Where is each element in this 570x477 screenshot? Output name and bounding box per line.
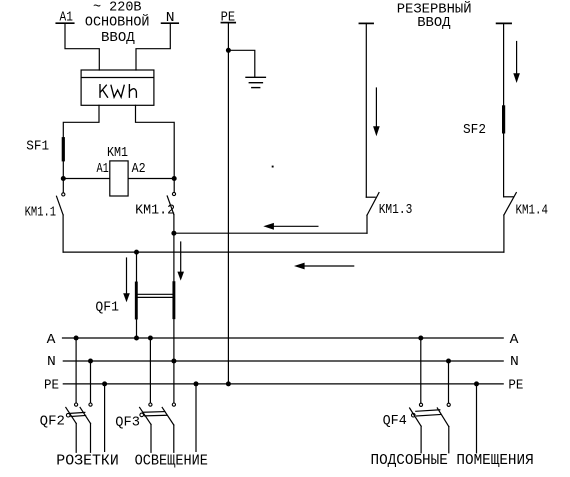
wire reserve left vertical xyxy=(365,23,367,197)
bus PE horizontal xyxy=(63,383,503,385)
breaker QF4 right pole circle xyxy=(447,403,450,406)
contact KM1.4 blade xyxy=(504,193,516,215)
breaker QF3 xyxy=(115,403,175,452)
node bus N dot QF2 xyxy=(88,359,93,364)
breaker QF4 right blade xyxy=(437,408,449,427)
wire QF1 right leg lower to bus N and QF3 xyxy=(173,318,175,403)
wire KM1.3 down xyxy=(366,215,368,233)
svg-text:KM1.1: KM1.1 xyxy=(25,205,57,221)
node bus N dot QF4 xyxy=(446,359,451,364)
wire QF2 left leg xyxy=(75,423,77,452)
breaker QF3 right pole circle xyxy=(172,403,175,406)
breaker QF4 left pole circle xyxy=(419,403,422,406)
wire QF3 right leg xyxy=(173,425,175,452)
breaker QF4 left blade xyxy=(410,408,422,426)
svg-text:A2: A2 xyxy=(132,161,146,177)
svg-text:A1: A1 xyxy=(97,161,109,177)
node bus A dot QF3 xyxy=(148,336,153,341)
svg-text:ПОДСОБНЫЕ ПОМЕЩЕНИЯ: ПОДСОБНЫЕ ПОМЕЩЕНИЯ xyxy=(371,452,534,469)
contact KM1.1 blade xyxy=(57,196,64,215)
breaker QF1 crossbar 2 xyxy=(138,296,173,298)
breaker QF4 linkage bar 2 xyxy=(417,415,441,417)
svg-text:ОСНОВНОЙ: ОСНОВНОЙ xyxy=(85,14,150,31)
wire QF1 right leg upper xyxy=(173,233,175,283)
wire QF3 left leg xyxy=(150,424,152,452)
svg-text:N: N xyxy=(510,354,519,370)
contact KM1.1 open circle xyxy=(62,193,65,196)
node bus PE dot main xyxy=(226,381,231,386)
wire kWh right output to node J2 xyxy=(136,105,175,178)
svg-text:ВВОД: ВВОД xyxy=(417,15,451,31)
wire QF2 right leg xyxy=(90,423,92,452)
breaker QF2 linkage bar 1 xyxy=(70,412,85,413)
wire node J1 to coil KM1 xyxy=(63,178,110,180)
breaker SF1 (thick bar) xyxy=(62,139,65,160)
breaker QF2 left pole circle xyxy=(75,403,78,406)
breaker QF1 left bar xyxy=(135,283,138,318)
svg-text:QF4: QF4 xyxy=(383,413,407,429)
meter kWh divider line xyxy=(81,77,154,79)
breaker QF4 handle circle xyxy=(412,413,416,417)
node bus A dot QF2 xyxy=(74,336,79,341)
contact KM1.2 open circle xyxy=(172,192,175,195)
breaker QF1 right bar xyxy=(172,283,175,318)
coil KM1 (contactor coil rectangle) xyxy=(110,161,128,196)
wire PE drop group1 xyxy=(104,384,106,452)
svg-text:QF3: QF3 xyxy=(115,414,140,430)
contact KM1.2 blade xyxy=(167,196,174,215)
svg-text:A: A xyxy=(47,332,56,348)
ground (earth symbol) xyxy=(246,77,265,87)
terminal tick N xyxy=(162,22,179,24)
wire SF1 to node J1 xyxy=(62,160,64,179)
terminal tick reserve left xyxy=(359,22,373,24)
contact KM1.3 blade xyxy=(367,193,379,216)
svg-text:A: A xyxy=(510,332,519,348)
contact KM1.4 fixed tick xyxy=(504,196,513,198)
svg-text:KM1.4: KM1.4 xyxy=(516,202,549,218)
wire reserve right to SF2 xyxy=(503,23,505,107)
svg-text:~ 220В: ~ 220В xyxy=(93,0,142,16)
wire coil KM1 to node J2 xyxy=(128,178,174,180)
arrow down on reserve left xyxy=(373,88,380,136)
svg-text:SF1: SF1 xyxy=(26,139,49,155)
wire bus A to QF4 left xyxy=(420,338,422,403)
node bus PE dot group3 xyxy=(474,381,479,386)
breaker QF3 right blade xyxy=(162,407,174,425)
wire bus A to QF2 left xyxy=(75,338,77,403)
wire KM1.2 to neutral link wire xyxy=(173,215,175,234)
wire PE drop group3 xyxy=(476,384,478,453)
breaker QF2 right blade xyxy=(80,407,90,423)
node bus PE dot group1 xyxy=(102,381,107,386)
arrow left upper (power flow) xyxy=(263,223,318,230)
breaker QF3 linkage bar 2 xyxy=(145,414,167,417)
svg-text:PE: PE xyxy=(508,378,523,394)
breaker QF4 linkage bar 1 xyxy=(416,410,440,412)
breaker QF1 crossbar 1 xyxy=(138,293,173,295)
wire PE drop group2 xyxy=(195,384,197,452)
terminal tick A1 xyxy=(56,22,73,24)
node J2 junction dot xyxy=(172,176,177,181)
wire QF4 left leg xyxy=(420,426,422,453)
svg-text:N: N xyxy=(47,354,56,370)
wire QF4 right leg xyxy=(448,427,450,453)
node PE-ground junction dot xyxy=(226,48,231,53)
wire bus A to QF3 left xyxy=(149,338,151,403)
wire PE main vertical xyxy=(227,23,229,384)
breaker QF2 handle circle xyxy=(66,413,70,417)
wire PE to earth xyxy=(228,50,254,77)
node phase link junction dot xyxy=(134,250,139,255)
wire QF1 left leg upper xyxy=(136,252,138,283)
svg-text:РОЗЕТКИ: РОЗЕТКИ xyxy=(56,452,119,469)
breaker SF2 (thick bar) xyxy=(502,107,505,132)
stray mark (scan speck) xyxy=(272,166,274,168)
breaker QF3 linkage bar 1 xyxy=(144,411,165,414)
contact KM1.3 fixed tick xyxy=(366,196,375,198)
svg-text:KM1.3: KM1.3 xyxy=(379,202,413,218)
breaker QF3 left blade xyxy=(140,407,151,424)
svg-text:ВВОД: ВВОД xyxy=(101,30,135,46)
bus N horizontal xyxy=(63,360,503,362)
node bus A dot QF1 xyxy=(134,336,139,341)
svg-text:ОСВЕЩЕНИЕ: ОСВЕЩЕНИЕ xyxy=(135,452,208,469)
breaker QF2 left blade xyxy=(66,407,76,423)
arrow left lower (power flow) xyxy=(294,263,354,270)
wire N terminal to kWh meter input xyxy=(136,23,170,70)
wire A1 terminal to kWh meter input xyxy=(65,23,99,70)
node bus N dot QF1 xyxy=(171,359,176,364)
breaker QF3 handle circle xyxy=(140,413,144,417)
breaker QF2 linkage bar 2 xyxy=(71,416,86,417)
node neutral link junction dot xyxy=(171,231,176,236)
wire KM1.4 down xyxy=(503,215,505,252)
wire KM1.1 to phase bus wire xyxy=(62,215,64,252)
arrow down right of QF1 xyxy=(177,242,184,281)
node J1 junction dot xyxy=(61,176,66,181)
breaker QF3 left pole circle xyxy=(149,403,152,406)
wire phase link (KM1.1/KM1.4 to QF1 left) xyxy=(63,251,504,253)
wire QF1 left leg lower to bus A xyxy=(136,318,138,338)
arrow down left of QF1 xyxy=(123,258,130,302)
terminal tick PE xyxy=(221,22,235,24)
wire bus N to QF2 right xyxy=(90,361,92,403)
svg-text:KM1: KM1 xyxy=(107,145,128,161)
svg-text:QF2: QF2 xyxy=(40,413,65,429)
wire neutral link (KM1.2/KM1.3 to QF1 right) xyxy=(174,232,367,234)
breaker QF4 xyxy=(383,403,451,453)
breaker QF2 right pole circle xyxy=(89,403,92,406)
node bus PE dot group2 xyxy=(194,381,199,386)
node bus A dot QF4 xyxy=(418,336,423,341)
wire kWh left output to SF1 xyxy=(63,105,99,138)
svg-text:PE: PE xyxy=(44,378,59,394)
contact KM1.1 fixed terminal xyxy=(62,179,64,193)
bus A horizontal xyxy=(63,337,504,339)
wire SF2 to KM1.4 xyxy=(503,132,505,197)
breaker QF2 xyxy=(40,403,92,452)
terminal tick reserve right xyxy=(497,22,512,24)
label kWh (drawn glyphs) xyxy=(100,85,136,98)
wire bus N to QF4 right xyxy=(448,361,450,403)
contact KM1.2 fixed terminal xyxy=(173,179,175,193)
svg-text:SF2: SF2 xyxy=(463,122,486,138)
arrow down on reserve right xyxy=(513,42,520,84)
svg-text:QF1: QF1 xyxy=(95,299,119,315)
meter PI1 kWh box xyxy=(81,70,154,105)
svg-text:KM1.2: KM1.2 xyxy=(135,203,175,219)
